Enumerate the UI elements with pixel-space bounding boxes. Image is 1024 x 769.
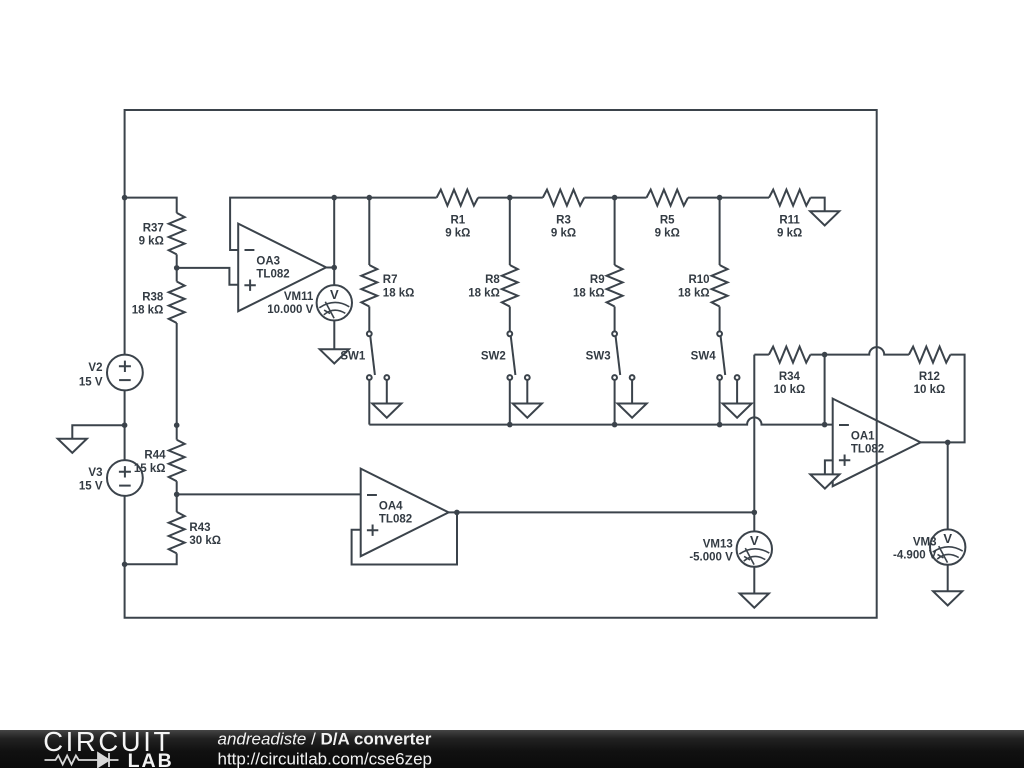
svg-text:http://circuitlab.com/cse6zep: http://circuitlab.com/cse6zep [218, 749, 432, 768]
svg-text:9 kΩ: 9 kΩ [139, 236, 164, 248]
wire switch common rail with hop to OA1 minus [369, 417, 832, 424]
node OA4 output/VM13 [752, 510, 758, 516]
resistor R10 [712, 265, 728, 307]
wire V3 bottom junction to R43 bottom [125, 553, 177, 564]
svg-text:SW3: SW3 [586, 350, 611, 362]
svg-text:-4.900 V: -4.900 V [893, 550, 937, 562]
svg-text:15 kΩ: 15 kΩ [134, 463, 166, 475]
wire V2 top handled by outer loop; ground spur at mid-left [72, 425, 124, 439]
wire R34 left branch vertical [753, 355, 755, 513]
wire SW2 right throw stem [526, 380, 528, 404]
ground under SW2 [513, 404, 542, 418]
ground under SW1 [372, 404, 401, 418]
voltage source V2 [107, 355, 143, 391]
wire R38 bottom to mid rail [176, 323, 178, 425]
resistor R9 [607, 265, 623, 307]
svg-text:9 kΩ: 9 kΩ [777, 228, 802, 240]
svg-text:18 kΩ: 18 kΩ [573, 287, 605, 299]
wire SW1 left throw to rail [368, 380, 370, 425]
svg-text:R5: R5 [660, 214, 675, 226]
resistor R7 [361, 265, 377, 307]
node rail at SW3 [612, 422, 618, 428]
svg-text:TL082: TL082 [379, 514, 412, 526]
svg-text:18 kΩ: 18 kΩ [468, 287, 500, 299]
node OA1 minus [822, 422, 828, 428]
resistor R38 [169, 282, 185, 324]
node rail at SW4 [717, 422, 723, 428]
resistor R34 [769, 347, 811, 363]
svg-text:R1: R1 [450, 214, 465, 226]
ground under SW3 [618, 404, 647, 418]
wire R37 bottom to node [176, 254, 178, 281]
wire R34 left lead [754, 354, 769, 356]
wire bus to R7 [368, 198, 370, 265]
resistor R11 [769, 190, 811, 206]
wire R9 to SW3 [614, 307, 616, 332]
svg-text:R34: R34 [779, 371, 801, 383]
svg-text:OA3: OA3 [256, 256, 280, 268]
svg-text:R43: R43 [189, 522, 210, 534]
node bus at R7 [367, 195, 373, 201]
svg-text:R11: R11 [779, 214, 800, 226]
svg-text:VM13: VM13 [703, 538, 733, 550]
op-amp OA4 [361, 469, 449, 557]
wire SW3 right throw stem [631, 380, 633, 404]
svg-text:VM11: VM11 [284, 291, 314, 303]
node OA3 output [331, 265, 337, 271]
wire rail to R44 top [176, 425, 178, 440]
resistor R12 [909, 347, 951, 363]
svg-text:18 kΩ: 18 kΩ [383, 287, 415, 299]
op-amp OA3 [238, 224, 326, 312]
node bus at R9 [612, 195, 618, 201]
svg-text:9 kΩ: 9 kΩ [655, 228, 680, 240]
svg-text:OA4: OA4 [379, 501, 403, 513]
wire bus to R9 [614, 198, 616, 265]
svg-text:V: V [330, 287, 339, 302]
wire bus to R10 [719, 198, 721, 265]
node bus-left [122, 195, 128, 201]
svg-text:V: V [943, 531, 952, 546]
ground under VM13 [740, 594, 769, 608]
node OA4 feedback [454, 510, 460, 516]
wire SW1 right throw stem [386, 380, 388, 404]
svg-text:LAB: LAB [128, 750, 174, 769]
wire OA4 output to VM13 node [449, 511, 755, 513]
svg-text:9 kΩ: 9 kΩ [551, 228, 576, 240]
ground under VM3 [933, 591, 962, 605]
node OA1 output/VM3 [945, 440, 951, 446]
svg-text:15 V: 15 V [79, 376, 103, 388]
svg-text:R12: R12 [919, 371, 940, 383]
wire SW3 left throw to rail [614, 380, 616, 425]
ground top-right [810, 211, 839, 225]
wire OA1 plus to ground [825, 460, 833, 474]
ground under OA1 plus [810, 474, 839, 488]
svg-text:R10: R10 [688, 274, 709, 286]
wire OA3 feedback and top bus [230, 198, 437, 250]
wire R3 to R5 [584, 197, 646, 199]
wire SW4 left throw to rail [719, 380, 721, 425]
logo wire-resistor-diode glyph [45, 753, 119, 767]
svg-text:10 kΩ: 10 kΩ [774, 384, 806, 396]
svg-text:SW1: SW1 [340, 350, 366, 362]
svg-text:TL082: TL082 [851, 444, 884, 456]
node R34/R12 [822, 352, 828, 358]
node R38/R44 rail [174, 422, 180, 428]
wire OA4 plus feedback loop [352, 513, 457, 565]
node rail at SW2 [507, 422, 513, 428]
wire R7 to SW1 [368, 307, 370, 332]
svg-text:R8: R8 [485, 274, 500, 286]
svg-text:R44: R44 [144, 449, 166, 461]
wire SW2 left throw to rail [509, 380, 511, 425]
svg-text:SW4: SW4 [691, 350, 717, 362]
svg-text:9 kΩ: 9 kΩ [445, 228, 470, 240]
wire R5 to R11 [688, 197, 769, 199]
svg-text:TL082: TL082 [256, 269, 289, 281]
svg-text:R38: R38 [142, 292, 164, 304]
svg-text:15 V: 15 V [79, 481, 103, 493]
voltmeter VM11 [317, 285, 352, 320]
resistor R37 [169, 213, 185, 255]
svg-text:-5.000 V: -5.000 V [689, 552, 733, 564]
wire node to OA4 minus input [177, 493, 361, 495]
ground mid-left [58, 439, 87, 453]
wire VM13 to ground [753, 567, 755, 594]
wire VM13 top stem [753, 512, 755, 531]
svg-text:R9: R9 [590, 274, 605, 286]
node bus at VM11 branch [331, 195, 337, 201]
wire VM11 to ground [333, 321, 335, 350]
wire R8 to SW2 [509, 307, 511, 332]
wire R34 right lead to node [810, 355, 824, 425]
svg-text:OA1: OA1 [851, 431, 875, 443]
svg-text:R37: R37 [143, 223, 164, 235]
node V2 minus rail [122, 422, 128, 428]
ground under VM11 [320, 349, 349, 363]
node bus at R10 [717, 195, 723, 201]
svg-text:10 kΩ: 10 kΩ [914, 384, 946, 396]
resistor R44 [169, 440, 185, 482]
resistor R43 [169, 512, 185, 554]
wire R44 bottom to node [176, 481, 178, 512]
ground under SW4 [723, 404, 752, 418]
node V3 bottom [122, 562, 128, 568]
voltmeter VM3 [930, 529, 965, 564]
voltmeter VM13 [737, 531, 772, 566]
node R37/R38 junction [174, 265, 180, 271]
wire SW4 right throw stem [736, 380, 738, 404]
wire OA1 output to VM3 [947, 442, 949, 529]
switch SW3 [612, 331, 634, 380]
node bus at R8 [507, 195, 513, 201]
svg-text:R7: R7 [383, 274, 398, 286]
svg-text:V: V [750, 533, 759, 548]
wire R1 to R3 [478, 197, 543, 199]
resistor R3 [543, 190, 585, 206]
svg-text:10.000 V: 10.000 V [267, 304, 313, 316]
resistor R5 [647, 190, 689, 206]
voltage source V3 [107, 460, 143, 496]
svg-text:V2: V2 [88, 362, 102, 374]
switch SW1 [367, 331, 389, 380]
switch SW2 [507, 331, 529, 380]
wire OA3 output down to VM11 [333, 268, 335, 286]
wire outer loop rectangle [125, 110, 877, 618]
wire R34 node to R12 with hop over outer wire [825, 347, 909, 355]
svg-text:18 kΩ: 18 kΩ [678, 287, 710, 299]
wire OA3 plus input from R37/R38 node [177, 268, 239, 285]
svg-text:SW2: SW2 [481, 350, 506, 362]
wire top-left bus to R37 [125, 198, 177, 213]
wire OA3 output node up to bus [326, 198, 334, 268]
node R44/R43 junction [174, 492, 180, 498]
wire bus to R8 [509, 198, 511, 265]
svg-text:30 kΩ: 30 kΩ [189, 535, 221, 547]
op-amp OA1 [833, 399, 921, 487]
svg-text:R3: R3 [556, 214, 571, 226]
resistor R1 [437, 190, 479, 206]
svg-text:18 kΩ: 18 kΩ [132, 305, 164, 317]
svg-text:VM3: VM3 [913, 537, 937, 549]
resistor R8 [502, 265, 518, 307]
wire R12 right leg down to output [921, 355, 965, 443]
svg-text:V3: V3 [88, 467, 102, 479]
wire R11 to ground [811, 198, 825, 212]
wire R10 to SW4 [719, 307, 721, 332]
wire VM3 to ground [947, 565, 949, 592]
svg-text:andreadiste / D/A converter: andreadiste / D/A converter [218, 730, 432, 748]
switch SW4 [717, 331, 739, 380]
